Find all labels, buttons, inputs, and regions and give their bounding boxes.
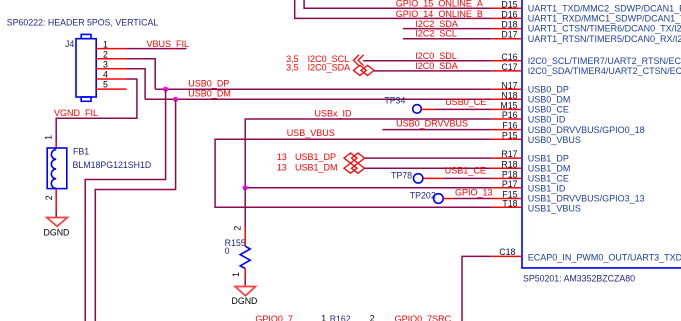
svg-text:C18: C18 [499,247,515,257]
svg-text:USB_VBUS: USB_VBUS [287,128,335,138]
pin D15 [492,7,521,9]
junction node USB0_DP tap [163,87,168,92]
pin D17 [492,38,521,40]
svg-text:3: 3 [103,60,108,70]
svg-text:USB1_DP: USB1_DP [295,152,336,162]
J4 pin 5 [96,88,126,90]
connector J4 [76,34,96,101]
svg-text:GPIO_13: GPIO_13 [455,188,493,198]
svg-text:USB1_DRVVBUS/GPIO3_13: USB1_DRVVBUS/GPIO3_13 [528,194,645,204]
junction node USB0_DM tap [173,97,178,102]
svg-text:I2C2_SCL: I2C2_SCL [415,28,457,38]
svg-text:P16: P16 [502,110,518,120]
junction node USBx_ID [243,185,248,190]
wire I2C2_SCL [403,38,492,40]
svg-text:USB0_VBUS: USB0_VBUS [528,135,581,145]
svg-text:VGND_FIL: VGND_FIL [54,108,98,118]
svg-text:1: 1 [321,313,326,321]
svg-text:USB0_DM: USB0_DM [528,95,571,105]
pin D18 [492,28,521,30]
svg-text:USB1_DM: USB1_DM [528,163,571,173]
wire pin3 to USB0_DM [127,69,146,100]
svg-text:J4: J4 [65,39,74,49]
svg-text:USB0_DM: USB0_DM [188,89,231,99]
svg-text:USB1_VBUS: USB1_VBUS [528,203,581,213]
pin F16 [492,129,521,131]
svg-text:USB0_CE: USB0_CE [528,105,569,115]
svg-text:GPIO0_7: GPIO0_7 [255,314,293,321]
svg-text:C17: C17 [501,62,517,72]
ground DGND (FB1) [47,218,68,227]
wire TP202 to F15 [453,198,491,200]
svg-text:C16: C16 [501,52,517,62]
svg-text:P17: P17 [502,179,518,189]
svg-text:ECAP0_IN_PWM0_OUT/UART3_TXD: ECAP0_IN_PWM0_OUT/UART3_TXD [528,253,681,263]
svg-text:TP34: TP34 [384,96,405,106]
svg-text:VBUS_FIL: VBUS_FIL [147,39,190,49]
svg-text:N17: N17 [501,80,517,90]
svg-text:R18: R18 [501,159,517,169]
svg-text:USB0_DRVVBUS: USB0_DRVVBUS [396,118,468,128]
svg-text:UART1_RXD/MMC1_SDWP/DCAN1_TX: UART1_RXD/MMC1_SDWP/DCAN1_TX [528,14,681,24]
pin D16 [492,17,521,19]
wire I2C2_SDA [403,28,492,30]
svg-text:P15: P15 [502,130,518,140]
ferrite bead FB1 [55,142,57,149]
svg-text:5: 5 [103,80,108,90]
svg-text:USB1_CE: USB1_CE [445,166,486,176]
wire pin2 to USB0_DP [127,59,156,89]
svg-text:D18: D18 [501,20,517,30]
svg-text:R17: R17 [501,149,517,159]
svg-text:2: 2 [233,226,243,231]
pin C17 [492,70,521,72]
off-page connector I2C0_SDA [353,65,374,75]
wire USB0_DP [155,88,492,90]
wire USB0_DM [145,98,492,100]
svg-text:1: 1 [44,135,54,140]
svg-text:TP202: TP202 [410,191,436,201]
svg-text:T18: T18 [502,198,517,208]
wire VBUS_FIL [127,48,187,50]
svg-text:USBx_ID: USBx_ID [315,109,353,119]
svg-text:USB0_DP: USB0_DP [528,84,569,94]
svg-text:0: 0 [225,246,230,256]
svg-text:USB0_CE: USB0_CE [445,97,486,107]
svg-text:D16: D16 [501,10,517,20]
svg-text:USB0_ID: USB0_ID [528,115,566,125]
svg-text:1: 1 [103,39,108,49]
svg-text:13: 13 [277,152,287,162]
wire USB0_DRVVBUS [382,129,491,131]
svg-text:2: 2 [44,195,54,200]
svg-text:UART1_CTSN/TIMER6/DCAN0_TX/I2C: UART1_CTSN/TIMER6/DCAN0_TX/I2C2 [528,24,681,34]
pin N18 [492,98,521,100]
pin F15 [492,198,521,200]
off-page connector I2C0_SCL [353,55,363,66]
wire I2C0_SDL to C16 [363,60,492,62]
svg-text:USB0_DP: USB0_DP [188,79,229,89]
svg-text:GPIO_14_ONLINE_B: GPIO_14_ONLINE_B [396,9,483,19]
wire C18 to bottom [462,256,492,321]
svg-text:13: 13 [277,162,287,172]
svg-text:UART1_RTSN/TIMER5/DCAN0_RX/I2C: UART1_RTSN/TIMER5/DCAN0_RX/I2C2 [528,34,681,44]
svg-text:USB1_DP: USB1_DP [528,153,569,163]
svg-text:USB0_DRVVBUS/GPIO0_18: USB0_DRVVBUS/GPIO0_18 [528,125,645,135]
svg-text:D15: D15 [501,0,517,9]
svg-text:3,5: 3,5 [286,63,299,73]
svg-text:1: 1 [231,272,241,277]
svg-text:D17: D17 [501,30,517,40]
pin N17 [492,88,521,90]
svg-text:DGND: DGND [44,227,70,237]
wire FB1 to ground [55,211,57,218]
pin P18 [492,177,521,179]
ground DGND (R155) [235,287,255,296]
svg-text:USB1_CE: USB1_CE [528,174,569,184]
svg-text:M15: M15 [500,101,517,111]
svg-text:4: 4 [103,70,108,80]
chip U5 AM3352 border [521,0,523,268]
pin C18 [492,255,521,257]
svg-text:USB1_ID: USB1_ID [528,183,566,193]
svg-text:I2C0_SCL/TIMER7/UART2_RTSN/ECA: I2C0_SCL/TIMER7/UART2_RTSN/ECAP2 [528,56,681,66]
pin R18 [492,167,521,169]
wire R155 to ground [244,278,246,287]
svg-text:GPIO0_7SRC: GPIO0_7SRC [395,314,452,321]
svg-text:SP60222: HEADER 5POS, VERTICAL: SP60222: HEADER 5POS, VERTICAL [7,17,159,27]
J4 pin 3 [96,68,126,70]
svg-text:TP78: TP78 [391,171,412,181]
wire GPIO_15 to D15 [304,0,492,8]
pin P15 [492,138,521,140]
svg-text:UART1_TXD/MMC2_SDWP/DCAN1_RX: UART1_TXD/MMC2_SDWP/DCAN1_RX [528,4,681,14]
wire GPIO_14 to D16 [295,0,492,18]
pin C16 [492,60,521,62]
wire USB_VBUS P15 to T18 [215,139,492,207]
off-page connector USB1_DP [344,153,365,163]
J4 pin 4 [96,78,126,80]
pin R17 [492,157,521,159]
wire USB1_ID P17 [245,187,492,189]
svg-text:2: 2 [103,49,108,59]
svg-text:I2C0_SDL: I2C0_SDL [415,51,457,61]
svg-text:I2C0_SDA/TIMER4/UART2_CTSN/ECA: I2C0_SDA/TIMER4/UART2_CTSN/ECAP1 [528,66,681,76]
pin P16 [492,118,521,120]
pin T18 [492,206,521,208]
svg-text:GPIO_15_ONLINE_A: GPIO_15_ONLINE_A [396,0,483,9]
pin P17 [492,187,521,189]
pin M15 [492,108,521,110]
svg-text:DGND: DGND [232,296,258,306]
wire USB0_DM down-left to bottom [95,99,175,321]
svg-text:2: 2 [370,313,375,321]
wire USB0_DP down-left to bottom [85,89,165,321]
svg-text:SP50201: AM3352BZCZA80: SP50201: AM3352BZCZA80 [523,274,635,284]
J4 pin 2 [96,58,126,60]
wire I2C0_SDA to C17 [374,70,492,72]
svg-text:USB1_DM: USB1_DM [295,162,338,172]
J4 pin 1 [96,48,126,50]
svg-text:I2C0_SDA: I2C0_SDA [415,61,458,71]
svg-text:FB1: FB1 [73,147,89,157]
svg-text:R162: R162 [330,314,351,321]
svg-text:F16: F16 [502,121,517,131]
off-page connector USB1_DM [344,163,365,173]
wire TP34 to M15 [435,108,492,110]
wire USBx_ID P16 to P17 [245,119,492,188]
svg-text:I2C0_SDA: I2C0_SDA [308,63,351,73]
wire USB1_DP to R17 [365,157,492,159]
svg-text:BLM18PG121SH1D: BLM18PG121SH1D [73,160,152,170]
wire pin4 to VGND_FIL [56,79,137,142]
svg-text:N18: N18 [501,90,517,100]
wire USB1_DM to R18 [365,167,492,169]
wire TP78 to P18 [443,177,492,179]
resistor R155 [244,188,246,227]
